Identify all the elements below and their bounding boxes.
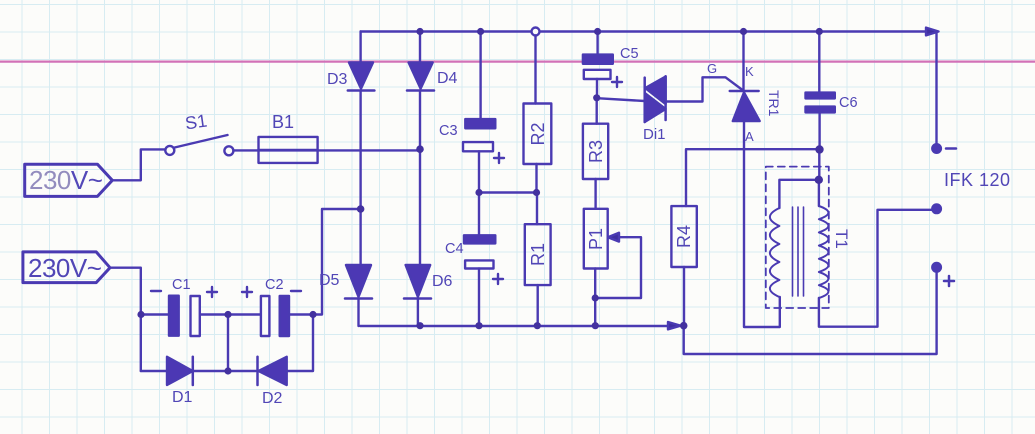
wire top bus	[361, 30, 928, 32]
svg-text:B1: B1	[272, 112, 294, 132]
fuse B1 through line	[259, 149, 318, 151]
svg-text:R2: R2	[528, 122, 548, 145]
diode D5	[345, 265, 372, 299]
wire C1 row	[141, 209, 361, 315]
wire secondary bottom to mid terminal	[819, 210, 932, 327]
switch S1	[165, 135, 233, 155]
wire primary top lead	[779, 180, 818, 208]
svg-text:C3: C3	[439, 123, 458, 139]
svg-text:C4: C4	[445, 241, 464, 257]
svg-text:G: G	[707, 61, 717, 76]
resistor R1	[525, 193, 551, 327]
capacitor C1	[151, 287, 217, 336]
terminal minus	[932, 144, 956, 153]
capacitor C4	[464, 193, 503, 327]
svg-text:R4: R4	[674, 225, 694, 248]
svg-text:230V~: 230V~	[28, 253, 102, 283]
capacitor C2	[242, 287, 301, 336]
wire switch to fuse to bridge	[233, 149, 419, 151]
wire upper input to switch	[112, 149, 165, 180]
arrow top bus	[926, 28, 939, 36]
transformer T1 dashed box	[766, 167, 829, 308]
node input tag 230V upper	[25, 164, 113, 196]
node input tag 230V lower	[23, 252, 110, 283]
wire bus right corner down to minus terminal	[935, 32, 937, 145]
diode D4	[407, 63, 434, 91]
wire diac branch	[597, 98, 645, 101]
svg-text:C1: C1	[172, 277, 191, 293]
svg-text:P1: P1	[586, 228, 606, 250]
svg-text:D3: D3	[327, 71, 348, 88]
wire D4 column	[418, 32, 420, 327]
svg-text:D4: D4	[437, 70, 458, 87]
svg-text:D5: D5	[319, 272, 340, 289]
thyristor TR1	[730, 91, 760, 121]
diac Di1	[645, 76, 666, 122]
svg-text:S1: S1	[184, 111, 209, 134]
svg-text:D2: D2	[262, 390, 283, 407]
transformer T1 secondary coil	[819, 206, 829, 298]
wire TR1 column	[744, 32, 780, 328]
diode D2	[258, 357, 287, 385]
potentiometer P1	[584, 209, 641, 326]
resistor R2	[524, 28, 552, 193]
svg-text:C6: C6	[839, 95, 858, 111]
svg-text:A: A	[745, 129, 754, 144]
terminal plus	[932, 263, 954, 286]
diode D1	[167, 357, 193, 385]
arrow bottom bus	[668, 322, 681, 329]
wire D1 D2 row	[141, 315, 313, 372]
svg-text:R3: R3	[586, 140, 606, 163]
fuse B1	[259, 137, 318, 163]
terminal mid	[932, 205, 941, 214]
resistor R3	[583, 97, 608, 208]
capacitor C6	[806, 32, 835, 150]
wire diac to gate	[666, 77, 743, 101]
wire lower input	[110, 268, 141, 371]
wire bottom bus	[360, 325, 678, 327]
transformer T1 primary coil	[770, 208, 780, 297]
svg-text:IFK 120: IFK 120	[944, 170, 1011, 190]
svg-text:Di1: Di1	[643, 126, 666, 143]
svg-text:T1: T1	[832, 229, 851, 249]
svg-text:K: K	[745, 64, 754, 79]
pink margin line	[0, 60, 1035, 62]
diode D3	[348, 63, 375, 91]
resistor R4	[671, 206, 696, 325]
svg-text:230V~: 230V~	[29, 165, 103, 195]
capacitor C5	[583, 32, 622, 98]
svg-text:R1: R1	[528, 243, 548, 266]
diode D6	[404, 265, 431, 299]
svg-text:C5: C5	[620, 46, 639, 62]
wire R4 top row	[686, 149, 820, 206]
wire plus net	[684, 272, 937, 354]
svg-text:C2: C2	[265, 277, 284, 293]
svg-text:TR1: TR1	[766, 90, 782, 117]
transformer T1 core	[793, 207, 804, 296]
svg-text:D1: D1	[172, 389, 193, 406]
wire C3-R2 row	[479, 191, 536, 193]
capacitor C3	[463, 32, 504, 193]
wire D3 column	[359, 32, 361, 327]
svg-text:D6: D6	[432, 273, 453, 290]
wire C6 node column	[818, 150, 821, 207]
